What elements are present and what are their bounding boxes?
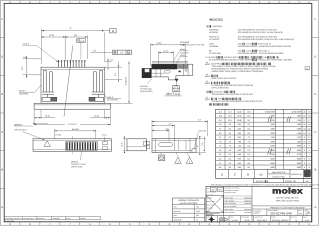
dim (1.7) above section: [159, 51, 174, 66]
svg-text:1 of 2: 1 of 2: [305, 219, 309, 222]
zone numbers bottom: [9, 223, 310, 226]
names/dates column: [223, 186, 225, 221]
svg-text:NO.: NO.: [305, 180, 309, 183]
dim (2.4)(A): [41, 35, 87, 60]
svg-text:52745-2098: 52745-2098: [291, 110, 302, 113]
svg-text:HOUSING: HOUSING: [19, 92, 29, 95]
svg-text:SH: SH: [304, 210, 306, 212]
svg-text:MARKET: MARKET: [271, 216, 277, 218]
svg-text:C: C: [70, 27, 72, 30]
svg-text:(A): (A): [259, 173, 263, 176]
svg-text:DRAWN: DRAWN: [206, 216, 211, 218]
svg-text:GENERAL TOLERANCES: GENERAL TOLERANCES: [178, 199, 200, 202]
svg-text:: POLYPHENYLENE SULFIDE, GLASS: : POLYPHENYLENE SULFIDE, GLASS FILLED, U…: [237, 38, 294, 41]
svg-text:A: A: [1, 205, 3, 209]
svg-text:HOUSING: HOUSING: [209, 31, 218, 34]
section cut diagonal line: [64, 46, 73, 117]
svg-text:D: D: [1, 92, 3, 96]
svg-text:SEE TABLE: SEE TABLE: [257, 219, 267, 222]
document number row: [266, 209, 268, 216]
svg-text:±0.2: ±0.2: [196, 206, 199, 209]
svg-text:GENERAL MARKET: GENERAL MARKET: [272, 219, 290, 222]
right side dims: [105, 58, 133, 103]
svg-text:0.2: 0.2: [120, 52, 124, 55]
svg-text:UPPER DIRECTION(L)-MAX. / LOWE: UPPER DIRECTION(L)-MAX. / LOWER DIRECTIO…: [212, 70, 265, 73]
dim C top: [41, 29, 109, 64]
zone ticks sides: [0, 38, 318, 189]
document status strip: [4, 217, 100, 220]
datum box B top right: [110, 29, 116, 33]
circuit no.1 triangle mark: [44, 141, 50, 147]
svg-text:SD-52746-048: SD-52746-048: [270, 212, 292, 216]
svg-text:SHEET: SHEET: [303, 216, 307, 218]
zone letters left/right: [1, 17, 316, 209]
svg-text:: PHOSPHOR BRONZE, TIN-NICKEL: : PHOSPHOR BRONZE, TIN-NICKEL OVER NICKE…: [237, 45, 291, 48]
svg-text:C: C: [1, 130, 3, 134]
svg-text:UNITS SCALE: UNITS SCALE: [207, 191, 216, 193]
crossed-out box: [206, 195, 224, 213]
svg-text:(SOLDERING): (SOLDERING): [140, 90, 153, 93]
svg-text:D: D: [314, 92, 316, 96]
dimension table grid: [216, 109, 312, 178]
datum box below side view: [159, 155, 165, 161]
coupling bits: [147, 142, 150, 145]
contact hatch block: [66, 142, 98, 150]
svg-text:UPPER SIDE: UPPER SIDE: [71, 166, 83, 169]
svg-text:B: B: [1, 167, 3, 171]
svg-text:52746: 52746: [244, 219, 249, 222]
svg-text:±3°: ±3°: [196, 219, 199, 222]
svg-text:(0.3): (0.3): [45, 114, 50, 117]
svg-text:B: B: [314, 167, 316, 171]
front view body outline: [41, 67, 105, 103]
bottom strip: [206, 215, 312, 217]
left fitting lug: [43, 70, 52, 92]
svg-text:DWG SIZE: DWG SIZE: [291, 216, 297, 218]
svg-text:52746-2098: 52746-2098: [265, 110, 276, 113]
svg-text:mm: mm: [212, 189, 216, 192]
svg-text:52746-XX▌▌: 52746-XX▌▌: [256, 180, 268, 183]
zone ticks top: [20, 1, 299, 4]
svg-text:B±0.05: B±0.05: [72, 128, 80, 131]
section A-A top band dark (FPC): [152, 64, 178, 69]
product customer drawing band: [252, 205, 312, 207]
svg-text:A: A: [314, 205, 316, 209]
left lug solder tab: [51, 97, 57, 101]
svg-text:TERMINATION: TERMINATION: [254, 216, 263, 218]
svg-text:(0.3): (0.3): [94, 114, 99, 117]
title block outline: [206, 186, 312, 221]
svg-text:POSTAL 3" REEL: POSTAL 3" REEL: [272, 175, 285, 178]
right fitting lug: [93, 70, 102, 92]
svg-text:3.65±0.1: 3.65±0.1: [125, 76, 128, 85]
svg-text:(A): (A): [74, 34, 77, 37]
bottom dims of front view: [34, 110, 110, 126]
svg-text:SECT A-A: SECT A-A: [166, 92, 181, 96]
svg-text:±0.25: ±0.25: [196, 210, 200, 213]
svg-text:(1.7): (1.7): [163, 50, 168, 53]
svg-text:E: E: [1, 54, 3, 58]
svg-text:OF P.C.B PATTERN.: OF P.C.B PATTERN.: [212, 86, 230, 89]
svg-text:NK: NK: [305, 173, 309, 176]
contact point label below: [81, 151, 82, 160]
section left metal cap: [142, 68, 151, 77]
svg-text:4=10/2: 4=10/2: [232, 219, 238, 222]
dim B±0.05: [54, 129, 95, 139]
svg-text:±0.3: ±0.3: [196, 214, 199, 217]
svg-text:molex: molex: [272, 187, 303, 196]
actuator slot (stadium): [159, 142, 173, 146]
svg-text:B: B: [112, 29, 114, 33]
note 4: [205, 74, 208, 77]
svg-text:mm² mm³: mm² mm³: [174, 210, 181, 213]
third angle projection symbols: [209, 217, 214, 222]
svg-text:RLD MUST NOT BE OVERLAPPED TO: RLD MUST NOT BE OVERLAPPED TO PATTERN OF…: [212, 100, 264, 103]
note 5: [205, 81, 208, 84]
svg-text:ACTUATOR: ACTUATOR: [208, 38, 220, 41]
units and scale boxes: [210, 187, 216, 191]
model number strip: [254, 178, 312, 182]
svg-text:E: E: [308, 211, 310, 215]
svg-text:MODEL NO.: MODEL NO.: [285, 180, 297, 183]
svg-text:IN THE PACKAGE/ACTUATOR OF PAR: IN THE PACKAGE/ACTUATOR OF PART NO/EPT▌▌…: [209, 59, 293, 62]
section A-A raised cover lines: [152, 61, 188, 63]
svg-text:B: B: [247, 172, 249, 176]
svg-text:: POLYAMIDE 46, GLASS FILLED,: : POLYAMIDE 46, GLASS FILLED, UL 94V-0 (…: [237, 31, 283, 34]
svg-text:▌▌▌ ▌▌▌▌▌▌▌▌ ▌▌▌▌.: ▌▌▌ ▌▌▌▌▌▌▌▌ ▌▌▌▌.: [209, 103, 230, 106]
zone numbers top: [9, 1, 310, 4]
svg-text:THIS PRODUCT IS LEAD FREE OF 5: THIS PRODUCT IS LEAD FREE OF 52745-0417.: [212, 93, 255, 96]
section internal detail: [151, 64, 188, 77]
svg-text:(3.9): (3.9): [157, 42, 162, 45]
approval stamp: [304, 170, 311, 177]
side solder tail: [192, 149, 196, 153]
note 3 with rev triangle: [205, 62, 208, 65]
svg-text:2-0.35: 2-0.35: [55, 134, 62, 137]
svg-text:TERMINAL: TERMINAL: [209, 45, 220, 48]
datum target below section: [173, 86, 179, 92]
svg-text:F: F: [315, 17, 317, 21]
svg-text:0.5±0.05: 0.5±0.05: [199, 130, 206, 133]
svg-text:(1.7): (1.7): [121, 142, 124, 147]
right lug solder tab: [89, 97, 95, 101]
svg-text:E: E: [314, 54, 316, 58]
svg-text:■■ NOTES: ■■ NOTES: [210, 18, 223, 21]
svg-text:CIRCUIT NO.1: CIRCUIT NO.1: [14, 129, 28, 132]
left dims 0.5 / 3.2: [23, 57, 42, 79]
terminal pins row: [58, 60, 85, 67]
svg-text:C: C: [314, 130, 316, 134]
svg-text:ANGULAR: ANGULAR: [174, 219, 183, 222]
dim (1.7) left of FPC box: [123, 137, 129, 153]
svg-text:MATERIAL NO.: MATERIAL NO.: [291, 173, 303, 176]
dim (3.9) above section: [151, 43, 186, 66]
bottom view centerline: [71, 136, 73, 154]
mating FPC box: [127, 139, 147, 151]
svg-text:(2.4): (2.4): [49, 34, 54, 37]
revision triangle 4: [175, 157, 182, 163]
right vertical dims: [196, 136, 206, 155]
svg-text:1. ▌▐▌: MATERIAL: 1. ▌▐▌: MATERIAL: [206, 25, 224, 28]
svg-text:13.1±0.2: 13.1±0.2: [68, 123, 77, 126]
revision triangle 5: [186, 157, 193, 163]
svg-text:2-C0.3: 2-C0.3: [22, 43, 29, 46]
bottom view right detail: [103, 142, 108, 145]
leader arrow to datum: [175, 79, 179, 82]
svg-text:INSERTION DEPTH OF FPC: INSERTION DEPTH OF FPC: [180, 44, 205, 47]
svg-text:ACTUATOR: ACTUATOR: [107, 99, 118, 102]
svg-text:FITTING NAIL: FITTING NAIL: [209, 52, 222, 55]
svg-text:mmⁿ: mmⁿ: [174, 214, 178, 217]
svg-text:#A(1.5M): #A(1.5M): [140, 85, 148, 88]
svg-text:F: F: [1, 17, 3, 21]
feature control frame: [112, 50, 131, 54]
svg-text:VPH CONT (LEAD FREE): VPH CONT (LEAD FREE): [276, 199, 300, 202]
svg-text:EMBOSSED TAPE: EMBOSSED TAPE: [272, 171, 286, 174]
svg-text:(FPC#A#9): (FPC#A#9): [180, 41, 190, 44]
general tolerances box: [173, 198, 205, 222]
svg-text:APPLY FOR EACH CIRCUIT.: APPLY FOR EACH CIRCUIT.: [212, 77, 237, 80]
small position frame under (A): [77, 39, 85, 43]
svg-text:DWG SERIES: DWG SERIES: [241, 216, 249, 218]
side view top dims: [152, 120, 208, 142]
svg-text:: PHOSPHOR BRONZE, TIN OVER NI: : PHOSPHOR BRONZE, TIN OVER NICKEL PLATI…: [237, 52, 284, 55]
svg-text:A4: A4: [295, 219, 297, 222]
svg-text:FSB: FSB: [299, 210, 302, 212]
side view body: [152, 138, 196, 152]
note 7: [205, 97, 208, 100]
section body outline: [151, 64, 193, 80]
svg-text:SCALE: SCALE: [230, 216, 234, 218]
bottom view outline: [33, 139, 111, 152]
svg-text:NTS: NTS: [219, 189, 224, 192]
svg-text:0.5 FPC CONN ASSY 2T: 0.5 FPC CONN ASSY 2T: [276, 196, 299, 199]
zone ticks bottom: [20, 222, 299, 225]
front view base plate: [34, 103, 110, 109]
